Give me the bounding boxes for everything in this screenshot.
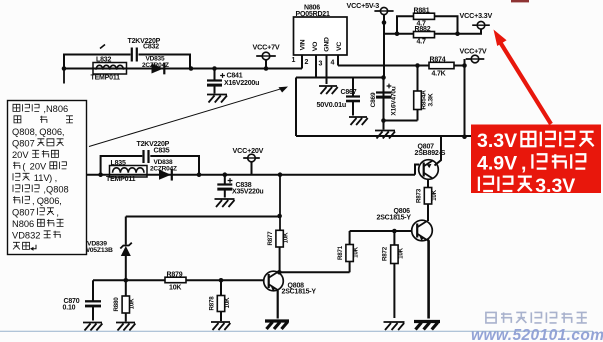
transistor Q806 2SC1815-Y NPN [412, 220, 433, 241]
wire pin4 VC lead [337, 55, 339, 66]
node K rail junction [462, 134, 467, 139]
wire R873 to Q806 collector [427, 204, 429, 221]
svg-text:,: , [35, 127, 38, 137]
ground under C867 [349, 117, 368, 125]
svg-text:C832: C832 [143, 44, 159, 51]
svg-text:): ) [49, 173, 52, 183]
svg-text:,: , [62, 127, 65, 137]
svg-text:R882: R882 [415, 26, 431, 33]
svg-text:,Q808: ,Q808 [41, 184, 69, 194]
wire to 3.3V terminal [458, 29, 482, 34]
svg-text:Q808: Q808 [12, 127, 35, 137]
svg-text:2SC1815-Y: 2SC1815-Y [282, 289, 317, 296]
wire R877 column [279, 175, 281, 231]
wire base row [93, 279, 264, 281]
annotation arrow black [89, 89, 281, 147]
wire VO net left leg [295, 78, 297, 137]
wire 20V line [86, 174, 415, 176]
svg-text:10K: 10K [431, 189, 438, 200]
wire pin3 GND lead [326, 55, 328, 84]
svg-text:PQ05RD21: PQ05RD21 [296, 11, 331, 18]
svg-text:C867: C867 [341, 89, 357, 96]
svg-text:R877: R877 [267, 231, 274, 246]
svg-text:,: , [59, 196, 62, 206]
wire VC vertical to rail [464, 59, 466, 137]
wire C832 parallel branch [64, 55, 190, 69]
wire C835 parallel branch [101, 156, 199, 175]
red annotation box 3.3V standby note [471, 125, 601, 194]
node L R854A top [415, 63, 420, 68]
svg-text:L835: L835 [111, 160, 126, 167]
inductor L835 [110, 166, 148, 178]
capacitor C869 electrolytic [383, 78, 385, 130]
dark red bar top [511, 0, 529, 2]
capacitor C838 electrolytic [224, 175, 226, 184]
resistor R871 [349, 231, 351, 245]
svg-text:50V0.01u: 50V0.01u [317, 100, 347, 109]
svg-text:VCC+3.3V: VCC+3.3V [460, 11, 493, 20]
svg-text:2SC1815-Y: 2SC1815-Y [377, 215, 412, 222]
svg-text:3.3V: 3.3V [535, 175, 575, 197]
wire R871 bottom to Q808 collector [279, 271, 349, 273]
wire R881 row [397, 16, 458, 33]
capacitor C867 [352, 78, 354, 97]
ground under R878 [211, 322, 230, 330]
wire control line y216 [126, 216, 279, 218]
svg-text:X16V2200u: X16V2200u [224, 80, 259, 87]
wire Q807 emitter to rail [435, 136, 442, 166]
svg-text:4.7: 4.7 [417, 39, 426, 46]
svg-text:20V: 20V [12, 150, 31, 160]
node A main 7V bus junction left [62, 66, 67, 71]
node M branch2 left [98, 172, 103, 177]
svg-text:Q807: Q807 [12, 138, 37, 148]
resistor R874 [429, 62, 454, 68]
svg-text:3.3V: 3.3V [477, 130, 517, 152]
capacitor C870 [92, 280, 94, 301]
node G on 5V drop wire [382, 20, 387, 25]
wire pin2 VO lead [315, 55, 317, 78]
resistor R872 [393, 231, 395, 245]
wire VO 5V rail [296, 135, 471, 137]
svg-text:3.3K: 3.3K [428, 93, 435, 106]
stray mark top left [100, 45, 105, 49]
wire R874 right [454, 65, 465, 67]
svg-text:4.9V: 4.9V [477, 152, 517, 174]
svg-text:1: 1 [292, 57, 296, 64]
resistor R878 [220, 280, 222, 295]
resistor R882 [414, 32, 435, 38]
zener diode VD839 W05Z13B [120, 243, 132, 249]
wire Q807 base step [415, 165, 419, 175]
capacitor C832 [132, 48, 137, 62]
node P R877 column top [278, 172, 283, 177]
svg-text:R871: R871 [337, 245, 344, 260]
svg-text:www.520101.com: www.520101.com [471, 327, 603, 342]
wire Q806 base line [350, 230, 412, 232]
diode VD835 [152, 63, 164, 73]
node D VCC7V stub junction [264, 66, 269, 71]
capacitor C841 [214, 69, 216, 81]
svg-text:W05Z13B: W05Z13B [84, 247, 113, 254]
node S Q808 collector junction [277, 270, 282, 275]
wire VO net horizontal [296, 77, 384, 79]
svg-text:N806: N806 [12, 219, 37, 229]
svg-text:VO: VO [312, 42, 319, 51]
wire R882 row [384, 33, 458, 35]
node Q R872 top [392, 229, 397, 234]
wire Q806 emitter [428, 240, 429, 319]
svg-text:R874: R874 [430, 57, 446, 64]
svg-text:2CZR04Z: 2CZR04Z [142, 62, 169, 69]
ground pin3 [319, 86, 338, 94]
red callout arrow [500, 42, 551, 124]
svg-text:10K: 10K [398, 247, 405, 258]
node J R874 right junction [462, 63, 467, 68]
svg-text:Q806: Q806 [39, 127, 62, 137]
svg-text:VCC+5V-3: VCC+5V-3 [347, 1, 380, 10]
inductor L832 [93, 63, 127, 75]
svg-text:,N806: ,N806 [41, 104, 68, 114]
wire 7V bus horizontal [63, 68, 302, 70]
node N after VD838 [197, 172, 202, 177]
svg-text:VCC+20V: VCC+20V [233, 146, 264, 155]
svg-text:R878: R878 [209, 296, 216, 311]
ground under C838 [215, 199, 235, 207]
svg-text:,: , [56, 207, 59, 217]
ground under C869 [375, 131, 395, 139]
diode VD838 [159, 170, 171, 180]
transistor Q808 2SC1815-Y NPN [264, 271, 284, 291]
node E VO-VCC5V junction [381, 75, 386, 80]
wire VD839 vertical [125, 217, 127, 245]
wire VC line [338, 65, 429, 67]
svg-text:TEMP011: TEMP011 [106, 176, 136, 183]
ground under C870 [83, 323, 102, 331]
transistor Q807 2SB892-S PNP [419, 160, 439, 180]
watermark line blue [0, 330, 593, 332]
note standby description text box [8, 101, 87, 255]
svg-text:R873: R873 [416, 188, 423, 203]
node R y216 junction [277, 214, 282, 219]
svg-text:VCC+7V: VCC+7V [460, 47, 487, 56]
ground under Q806 [414, 322, 440, 330]
wire Q808 emitter [277, 290, 279, 318]
node H R88x left [395, 31, 400, 36]
op-amp regulator U1 N806 PQ05RD21 box [294, 17, 348, 55]
svg-text:X35V220u: X35V220u [232, 189, 263, 196]
svg-text:10K: 10K [224, 297, 231, 308]
node U R878 top [219, 278, 224, 283]
svg-text:C835: C835 [154, 148, 170, 155]
resistor R879 [165, 277, 186, 283]
svg-text:R854A: R854A [421, 90, 428, 110]
node T base distribution node [124, 278, 129, 283]
svg-text:R880: R880 [113, 297, 120, 312]
svg-text:4.7K: 4.7K [432, 71, 446, 78]
svg-text:10K: 10K [169, 285, 181, 292]
svg-text:10K: 10K [353, 246, 360, 257]
svg-text:3: 3 [319, 61, 323, 68]
svg-text:L832: L832 [96, 57, 111, 64]
svg-text:VC: VC [336, 42, 343, 51]
resistor R854A [417, 66, 419, 92]
svg-text:,: , [55, 173, 58, 183]
ground under R880 [116, 323, 135, 331]
resistor R877 [276, 230, 283, 247]
node B bus after diode [189, 66, 194, 71]
node C C841 junction [212, 66, 217, 71]
svg-text:20V: 20V [27, 161, 49, 171]
svg-text:C841: C841 [227, 73, 243, 80]
wire Q807 collector [427, 179, 429, 187]
svg-text:4: 4 [331, 60, 335, 67]
ground under Q808 [265, 321, 289, 329]
svg-text:10K: 10K [283, 232, 290, 243]
resistor R880 [125, 280, 127, 296]
capacitor C835 [144, 150, 149, 163]
svg-text:Q807: Q807 [12, 207, 37, 217]
svg-text:X16V470u: X16V470u [391, 86, 398, 115]
watermark site name [486, 312, 496, 323]
node O C838 junction [223, 172, 228, 177]
svg-text:,: , [32, 196, 35, 206]
node F C869 bottom junction [381, 118, 386, 123]
svg-text:R881: R881 [414, 8, 430, 15]
wire R877 to Q808 [279, 247, 281, 273]
wire R854A bottom to C869 [384, 120, 418, 122]
svg-text:VIN: VIN [300, 39, 307, 50]
svg-text:10K: 10K [129, 298, 136, 309]
svg-text:,: , [521, 152, 526, 174]
node I R88x right [455, 31, 460, 36]
ground under C841 [207, 95, 227, 103]
svg-text:0.10: 0.10 [63, 305, 76, 312]
svg-text:R872: R872 [382, 246, 389, 261]
svg-text:C869: C869 [370, 92, 377, 107]
svg-text:VCC+7V: VCC+7V [253, 43, 280, 52]
wire zener to node [125, 256, 127, 281]
svg-text:Q806: Q806 [37, 196, 60, 206]
svg-text:R879: R879 [167, 272, 183, 279]
svg-text:2: 2 [305, 59, 309, 66]
resistor R881 [414, 13, 435, 19]
ground under R872 [384, 322, 405, 330]
svg-text:GND: GND [324, 37, 331, 52]
resistor R873 [424, 188, 431, 205]
svg-text:2CZR04Z: 2CZR04Z [150, 166, 177, 173]
wire bus rise to pin1 [301, 53, 303, 69]
svg-text:VD832: VD832 [12, 230, 43, 240]
svg-text:TEMP011: TEMP011 [91, 75, 121, 82]
